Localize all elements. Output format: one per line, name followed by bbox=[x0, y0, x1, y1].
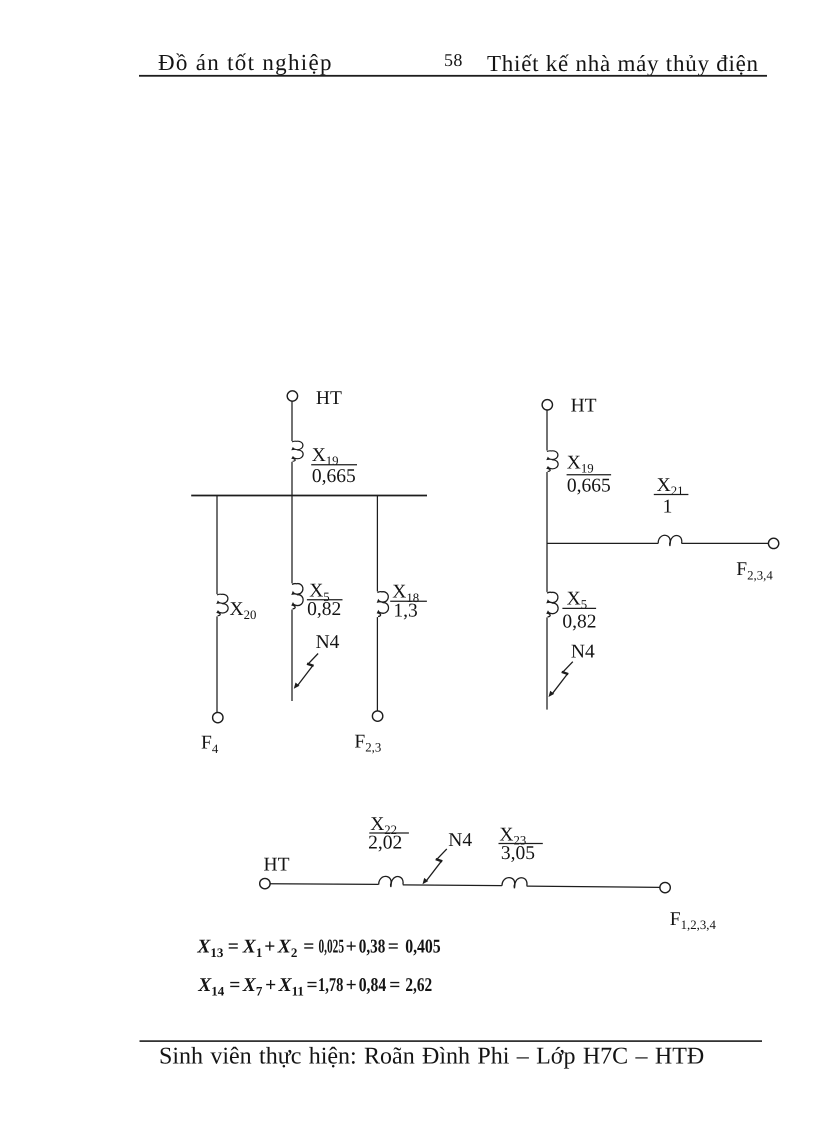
svg-text:X13: X13 bbox=[196, 936, 224, 960]
svg-text:+: + bbox=[346, 975, 357, 996]
wire X22 to X23 bbox=[403, 884, 502, 887]
svg-text:N4: N4 bbox=[448, 830, 472, 851]
svg-text:=: = bbox=[388, 936, 399, 957]
wire HT to X19 bbox=[291, 401, 293, 441]
terminal F1,2,3,4 bbox=[660, 882, 670, 892]
label X21/1 bbox=[654, 475, 689, 517]
bus bar bbox=[191, 495, 427, 497]
svg-text:HT: HT bbox=[264, 854, 290, 875]
svg-text:X19: X19 bbox=[567, 453, 594, 476]
svg-text:HT: HT bbox=[571, 396, 597, 417]
terminal F2,3 bbox=[372, 711, 382, 721]
wire X5 to fault point N4 (right diagram) bbox=[546, 617, 548, 709]
svg-text:58: 58 bbox=[444, 50, 463, 70]
fault arrow N4 (bottom diagram) bbox=[423, 849, 447, 884]
svg-text:2,02: 2,02 bbox=[368, 832, 402, 853]
terminal HT (left diagram) bbox=[287, 391, 297, 401]
wire HT to X19 (right diagram) bbox=[546, 410, 548, 450]
label X22/2,02 bbox=[368, 814, 409, 853]
svg-text:X20: X20 bbox=[230, 599, 257, 622]
reactor X5 (left diagram) bbox=[292, 584, 303, 609]
wire X19 to bus and through to X5 bbox=[291, 462, 293, 583]
label X19/0,665 (right diagram) bbox=[567, 453, 612, 497]
svg-text:F1,2,3,4: F1,2,3,4 bbox=[670, 909, 717, 932]
reactor X5 (right diagram) bbox=[547, 592, 558, 617]
svg-text:3,05: 3,05 bbox=[501, 843, 535, 864]
svg-text:1,78: 1,78 bbox=[318, 975, 343, 996]
svg-text:X2: X2 bbox=[277, 936, 298, 960]
svg-text:X14: X14 bbox=[197, 975, 225, 999]
svg-text:N4: N4 bbox=[571, 642, 595, 663]
svg-text:+: + bbox=[346, 936, 357, 957]
wire bus to X18 bbox=[376, 496, 378, 592]
reactor X21 bbox=[658, 535, 682, 546]
reactor X19 (left diagram) bbox=[292, 441, 303, 461]
svg-text:=: = bbox=[228, 936, 239, 957]
svg-text:=: = bbox=[303, 936, 314, 957]
svg-text:0,84: 0,84 bbox=[359, 975, 387, 996]
wire X23 to F1,2,3,4 bbox=[527, 886, 660, 887]
svg-text:F4: F4 bbox=[201, 733, 219, 756]
equation X13 = X1 + X2 = 0,025 + 0,38 = 0,405 bbox=[196, 936, 441, 960]
svg-text:0,38: 0,38 bbox=[359, 936, 386, 957]
svg-text:Sinh viên thực hiện: Roãn Đình: Sinh viên thực hiện: Roãn Đình Phi – Lớp… bbox=[159, 1044, 704, 1070]
label X23/3,05 bbox=[499, 824, 543, 864]
svg-text:N4: N4 bbox=[316, 632, 340, 653]
label X18/1,3 bbox=[390, 582, 427, 622]
wire X5 to fault point N4 (left diagram) bbox=[291, 610, 293, 702]
reactor X18 bbox=[377, 592, 388, 617]
svg-text:Đồ án tốt nghiệp: Đồ án tốt nghiệp bbox=[158, 50, 333, 75]
svg-text:F2,3: F2,3 bbox=[354, 731, 381, 754]
wire X18 to F2,3 bbox=[376, 617, 378, 711]
reactor X20 bbox=[217, 594, 228, 616]
reactor X19 (right diagram) bbox=[547, 451, 558, 472]
svg-text:X11: X11 bbox=[278, 975, 304, 999]
equation X14 = X7 + X11 = 1,78 + 0,84 = 2,62 bbox=[197, 975, 432, 999]
svg-text:X1: X1 bbox=[242, 936, 263, 960]
label X5/0,82 (right diagram) bbox=[562, 589, 596, 633]
svg-text:X7: X7 bbox=[242, 975, 263, 999]
label X5/0,82 (left diagram) bbox=[307, 581, 343, 620]
reactor X22 bbox=[379, 876, 403, 887]
terminal HT (right diagram) bbox=[542, 400, 552, 410]
footer rule bbox=[140, 1040, 763, 1042]
header rule bbox=[139, 75, 767, 77]
terminal F2,3,4 bbox=[768, 538, 778, 548]
wire X21 to F2,3,4 bbox=[682, 542, 769, 544]
reactor X23 bbox=[502, 878, 527, 889]
svg-text:F2,3,4: F2,3,4 bbox=[736, 559, 773, 582]
fault arrow N4 (right diagram) bbox=[549, 662, 573, 697]
svg-text:0,82: 0,82 bbox=[562, 612, 596, 633]
svg-text:0,405: 0,405 bbox=[405, 936, 441, 957]
wire junction to X21 bbox=[547, 542, 658, 544]
terminal F4 bbox=[213, 712, 223, 722]
svg-text:HT: HT bbox=[316, 388, 342, 409]
svg-text:1,3: 1,3 bbox=[393, 600, 417, 621]
svg-text:+: + bbox=[264, 936, 275, 957]
svg-text:2,62: 2,62 bbox=[405, 975, 432, 996]
svg-text:1: 1 bbox=[663, 496, 673, 517]
svg-text:0,025: 0,025 bbox=[319, 936, 345, 957]
label X19/0,665 (left diagram) bbox=[311, 445, 357, 487]
wire bus to X20 bbox=[216, 496, 218, 595]
svg-text:=: = bbox=[307, 975, 318, 996]
svg-text:0,665: 0,665 bbox=[312, 466, 356, 487]
fault arrow N4 (left diagram) bbox=[294, 654, 318, 689]
svg-text:0,665: 0,665 bbox=[567, 475, 611, 496]
svg-text:+: + bbox=[265, 975, 276, 996]
svg-text:0,82: 0,82 bbox=[307, 599, 341, 620]
svg-text:=: = bbox=[229, 975, 240, 996]
terminal HT (bottom diagram) bbox=[260, 878, 270, 888]
svg-text:Thiết kế nhà máy thủy điện: Thiết kế nhà máy thủy điện bbox=[487, 51, 759, 76]
wire X20 to F4 bbox=[216, 616, 218, 712]
wire HT to X22 bbox=[270, 883, 378, 886]
svg-text:=: = bbox=[389, 975, 400, 996]
wire X19 through junction to X5 (right diagram) bbox=[546, 472, 548, 592]
